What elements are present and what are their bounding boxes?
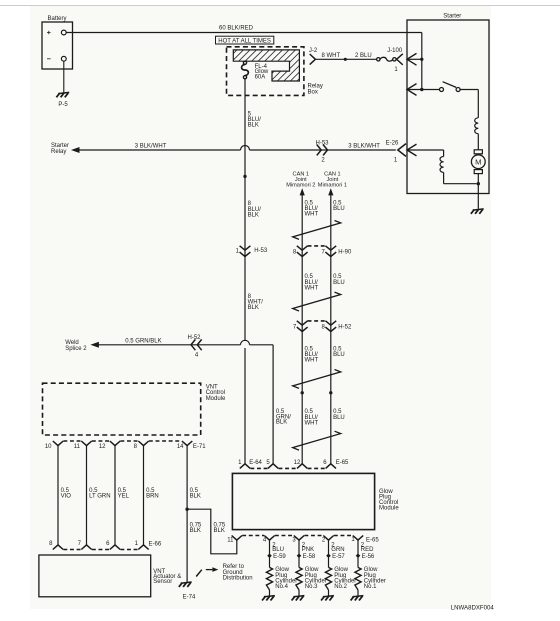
svg-text:Module: Module bbox=[379, 506, 399, 512]
entry arrow E-26 row bbox=[407, 144, 417, 156]
solenoid hold-in coil bbox=[440, 157, 444, 173]
svg-text:H-52: H-52 bbox=[187, 335, 201, 341]
relay box dashed outline bbox=[227, 47, 304, 96]
wire CAN left bbox=[301, 195, 303, 464]
wire 2 PNK bbox=[299, 540, 314, 567]
wire 0.5 YEL bbox=[115, 446, 130, 545]
svg-text:E-71: E-71 bbox=[193, 444, 206, 450]
svg-text:No.3: No.3 bbox=[305, 584, 318, 590]
wire to junction bbox=[407, 58, 422, 60]
starter switch bbox=[440, 82, 461, 92]
entry arrow switch row bbox=[407, 84, 417, 96]
starter box bbox=[407, 20, 489, 194]
starter relay label bbox=[51, 143, 69, 155]
wire coil to motor bbox=[477, 134, 479, 150]
svg-text:P-5: P-5 bbox=[58, 102, 68, 108]
svg-text:0.5 GRN/BLK: 0.5 GRN/BLK bbox=[125, 339, 161, 345]
wire 8 WHT / 2 BLU bbox=[315, 53, 376, 60]
svg-text:E-57: E-57 bbox=[332, 554, 345, 560]
wire 0.5 BLK bbox=[187, 446, 201, 583]
svg-text:HOT AT ALL TIMES: HOT AT ALL TIMES bbox=[218, 39, 271, 45]
svg-text:H-53: H-53 bbox=[254, 248, 268, 254]
wire to switch bbox=[407, 89, 440, 91]
svg-text:2 BLU: 2 BLU bbox=[355, 53, 372, 59]
svg-text:E-74: E-74 bbox=[183, 594, 196, 600]
svg-text:14: 14 bbox=[177, 444, 184, 450]
svg-text:BLK: BLK bbox=[214, 528, 225, 534]
refer to ground distribution note bbox=[196, 564, 252, 581]
wire plug No.2 to ground bbox=[328, 590, 330, 596]
wire 0.5 GRN/BLK vertical bbox=[273, 345, 291, 464]
junction center wire bbox=[243, 175, 246, 178]
svg-text:H-90: H-90 bbox=[338, 249, 352, 255]
arrow to weld splice bbox=[90, 342, 99, 348]
wire plug No.4 to ground bbox=[269, 590, 271, 596]
connector E-26 bbox=[386, 140, 406, 163]
solenoid pull-in coil bbox=[475, 118, 479, 134]
twisted pair 2 bbox=[293, 292, 341, 311]
wire 0.5 BRN bbox=[144, 446, 159, 545]
svg-text:12: 12 bbox=[99, 444, 106, 450]
svg-text:BLU: BLU bbox=[333, 415, 345, 421]
wire battery negative to ground bbox=[63, 61, 65, 92]
connector J-100 bbox=[377, 48, 403, 73]
svg-text:Battery: Battery bbox=[47, 16, 66, 22]
ground glow No.2 bbox=[323, 596, 334, 597]
svg-text:Module: Module bbox=[206, 396, 226, 402]
connector H-53 center bbox=[236, 246, 268, 257]
wire E-26 to hold coil bbox=[407, 150, 444, 157]
fusible link FL-4 Glow 60A bbox=[242, 61, 269, 80]
svg-text:GRN: GRN bbox=[331, 547, 344, 553]
connector row E-66 bbox=[49, 541, 162, 550]
svg-text:WHT: WHT bbox=[305, 358, 319, 364]
svg-text:11: 11 bbox=[227, 538, 234, 544]
connector J-2 bbox=[309, 48, 318, 65]
junction B bbox=[420, 88, 423, 91]
svg-text:BLU: BLU bbox=[272, 547, 284, 553]
wire hold coil to junction bbox=[444, 172, 477, 183]
arrow to starter relay bbox=[71, 147, 80, 153]
wire CAN right bbox=[330, 195, 332, 464]
svg-text:60A: 60A bbox=[255, 74, 266, 80]
svg-text:E-65: E-65 bbox=[366, 538, 379, 544]
svg-text:M: M bbox=[475, 157, 481, 166]
twisted pair 4 bbox=[293, 431, 341, 450]
svg-text:BRN: BRN bbox=[146, 494, 159, 500]
svg-text:60 BLK/RED: 60 BLK/RED bbox=[219, 26, 254, 32]
wire plug No.3 to ground bbox=[298, 590, 300, 596]
svg-text:Splice 2: Splice 2 bbox=[65, 346, 87, 352]
svg-text:8 WHT: 8 WHT bbox=[322, 53, 341, 59]
wire 0.5 VIO bbox=[58, 446, 71, 545]
wire 60 BLK/RED battery positive to starter bbox=[66, 26, 422, 33]
junction motor ground bbox=[477, 182, 480, 185]
svg-text:Distribution: Distribution bbox=[223, 575, 253, 581]
top hairline bbox=[0, 5, 560, 7]
wire motor to ground bbox=[477, 174, 479, 209]
svg-text:E-66: E-66 bbox=[149, 542, 162, 548]
weld splice 2 label bbox=[65, 340, 87, 352]
starter ground bbox=[473, 209, 484, 210]
ground glow No.4 bbox=[264, 596, 275, 597]
wire 3 BLK/WHT left bbox=[79, 144, 396, 150]
svg-text:3 BLK/WHT: 3 BLK/WHT bbox=[135, 144, 167, 150]
svg-text:RED: RED bbox=[361, 547, 374, 553]
wire 0.5 LT GRN bbox=[87, 446, 111, 545]
VNT control module dashed box bbox=[43, 383, 201, 435]
svg-text:Relay: Relay bbox=[51, 149, 66, 155]
svg-text:BLU: BLU bbox=[333, 352, 345, 358]
battery B1 bbox=[42, 22, 73, 69]
svg-text:Starter: Starter bbox=[443, 14, 461, 20]
glow plug control module U1 bbox=[232, 473, 399, 529]
svg-text:E-64: E-64 bbox=[249, 460, 262, 466]
connector H-52 pair bbox=[293, 321, 352, 332]
svg-text:PNK: PNK bbox=[302, 547, 314, 553]
svg-text:LT GRN: LT GRN bbox=[89, 494, 110, 500]
connector E-56 bbox=[356, 553, 375, 560]
glow plug cylinder No.3 bbox=[296, 567, 327, 590]
svg-text:WHT: WHT bbox=[305, 420, 319, 426]
svg-text:YEL: YEL bbox=[118, 494, 130, 500]
wire 2 RED bbox=[358, 540, 374, 567]
arrow CAN right up bbox=[328, 188, 333, 195]
ground P-5 bbox=[56, 92, 69, 108]
svg-text:E-59: E-59 bbox=[273, 554, 286, 560]
svg-text:Mimamori 1: Mimamori 1 bbox=[318, 183, 347, 189]
wire 2 GRN bbox=[329, 540, 345, 567]
junction A bbox=[420, 58, 423, 61]
connector row E-64 E-65 bbox=[238, 460, 349, 469]
connector E-57 bbox=[326, 553, 345, 560]
svg-text:BLU: BLU bbox=[333, 280, 345, 286]
svg-text:E-56: E-56 bbox=[362, 554, 375, 560]
wire battery feed down bbox=[421, 33, 423, 90]
wire switch to solenoid coil bbox=[460, 90, 478, 118]
svg-text:H-52: H-52 bbox=[338, 324, 352, 330]
svg-text:No.2: No.2 bbox=[334, 584, 347, 590]
svg-text:11: 11 bbox=[74, 444, 81, 450]
svg-text:Sensor: Sensor bbox=[153, 579, 172, 585]
junction CAN left bbox=[301, 391, 304, 394]
ground glow No.1 bbox=[352, 596, 363, 597]
svg-text:12: 12 bbox=[294, 460, 301, 466]
wire 0.75 BLK branch to pin 11 bbox=[187, 509, 237, 554]
svg-text:Mimamori 2: Mimamori 2 bbox=[286, 183, 315, 189]
glow plug cylinder No.4 bbox=[266, 567, 297, 590]
svg-text:WHT: WHT bbox=[305, 285, 319, 291]
wire 0.5 GRN/BLK horizontal bbox=[98, 339, 273, 345]
connector row E-65 bottom bbox=[227, 536, 379, 544]
connector H-52 weld bbox=[187, 335, 201, 358]
svg-text:LNWA8DXF004: LNWA8DXF004 bbox=[451, 604, 495, 611]
connector H-53 inline bbox=[315, 140, 329, 163]
svg-text:E-26: E-26 bbox=[386, 140, 399, 146]
connector E-59 bbox=[267, 553, 286, 560]
glow plug cylinder No.1 bbox=[355, 567, 386, 590]
ground E-74 bbox=[179, 582, 196, 600]
entry arrow J-100 wire bbox=[407, 53, 417, 65]
svg-text:10: 10 bbox=[45, 444, 52, 450]
svg-text:BLK: BLK bbox=[248, 212, 259, 218]
svg-text:H-53: H-53 bbox=[315, 140, 329, 146]
twisted pair 3 bbox=[293, 370, 341, 389]
wire plug No.1 to ground bbox=[357, 590, 359, 596]
scan area bbox=[30, 6, 491, 609]
svg-text:BLK: BLK bbox=[276, 420, 287, 426]
bus bar hatched bbox=[233, 50, 299, 81]
svg-text:J-2: J-2 bbox=[309, 48, 318, 54]
junction 0.75 BLK split bbox=[185, 508, 188, 511]
svg-text:BLK: BLK bbox=[248, 305, 259, 311]
svg-text:Box: Box bbox=[308, 89, 318, 95]
wire 2 BLU bbox=[270, 540, 284, 567]
svg-text:VIO: VIO bbox=[61, 494, 72, 500]
junction J-2 wire bbox=[344, 58, 347, 61]
connector H-90 pair bbox=[293, 246, 352, 257]
svg-text:E-65: E-65 bbox=[336, 460, 349, 466]
wire 5 BLU/BLK bbox=[245, 79, 261, 464]
svg-text:J-100: J-100 bbox=[387, 48, 403, 54]
VNT actuator sensor box bbox=[39, 555, 181, 597]
svg-text:BLU: BLU bbox=[333, 206, 345, 212]
twisted pair 1 bbox=[293, 221, 341, 240]
svg-text:WHT: WHT bbox=[305, 212, 319, 218]
svg-text:E-58: E-58 bbox=[303, 554, 316, 560]
relay box label bbox=[308, 83, 323, 95]
svg-text:No.1: No.1 bbox=[364, 584, 377, 590]
svg-text:No.4: No.4 bbox=[275, 584, 288, 590]
arrow CAN left up bbox=[300, 188, 305, 195]
svg-text:BLK: BLK bbox=[190, 494, 201, 500]
svg-text:BLK: BLK bbox=[190, 528, 201, 534]
hot at all times box bbox=[216, 36, 274, 44]
junction CAN right bbox=[329, 391, 332, 394]
ground glow No.3 bbox=[293, 596, 304, 597]
connector row E-71 bbox=[45, 441, 206, 450]
starter motor M bbox=[471, 150, 485, 174]
svg-text:BLK: BLK bbox=[248, 123, 259, 129]
connector E-58 bbox=[297, 553, 316, 560]
glow plug cylinder No.2 bbox=[325, 567, 356, 590]
svg-text:3 BLK/WHT: 3 BLK/WHT bbox=[348, 144, 380, 150]
